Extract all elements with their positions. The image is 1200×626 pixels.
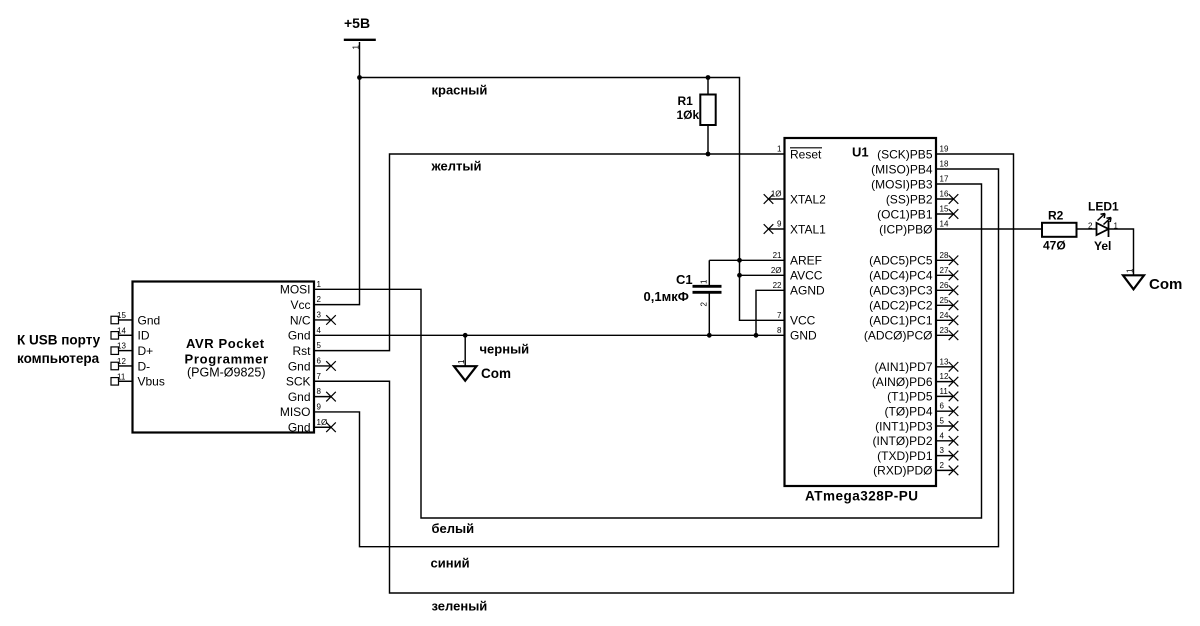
U1 pin 2 (RXD)PD0: [873, 461, 958, 478]
junction R1 bottom / yellow wire: [706, 152, 711, 157]
svg-text:13: 13: [940, 357, 949, 366]
svg-text:VCC: VCC: [790, 314, 816, 328]
ground symbol Com (right): [1123, 268, 1182, 293]
svg-text:1Ø: 1Ø: [771, 190, 782, 199]
programmer pin 1 MOSI: [280, 280, 322, 297]
svg-text:Gnd: Gnd: [288, 359, 311, 373]
U1 pin 14 (ICP)PB0: [879, 220, 949, 237]
wire PB0 (pin14) to R2: [936, 228, 1042, 230]
svg-text:15: 15: [117, 311, 126, 320]
svg-text:D-: D-: [138, 359, 151, 373]
ground symbol Com (left): [454, 335, 511, 381]
svg-text:4: 4: [317, 326, 322, 335]
svg-text:+5В: +5В: [344, 15, 370, 31]
svg-text:(OC1)PB1: (OC1)PB1: [877, 207, 933, 221]
svg-text:AVR Pocket: AVR Pocket: [186, 336, 265, 351]
svg-text:GND: GND: [790, 329, 817, 343]
svg-text:Yel: Yel: [1094, 239, 1111, 253]
svg-text:18: 18: [940, 160, 949, 169]
junction C1 bottom / GND wire: [707, 333, 712, 338]
svg-text:9: 9: [777, 220, 782, 229]
svg-text:1: 1: [777, 145, 782, 154]
U1 pin 10 XTAL2: [764, 190, 826, 207]
svg-text:желтый: желтый: [431, 159, 482, 174]
svg-text:8: 8: [317, 387, 322, 396]
programmer pin 3 N/C: [290, 310, 336, 327]
svg-text:26: 26: [940, 281, 949, 290]
U1 pin 16 (SS)PB2: [886, 190, 958, 207]
svg-text:D+: D+: [138, 344, 154, 358]
resistor R2 470: [1042, 209, 1077, 253]
svg-text:компьютера: компьютера: [17, 351, 100, 366]
svg-text:15: 15: [940, 205, 949, 214]
U1 pin 17 (MOSI)PB3: [871, 175, 949, 192]
svg-text:6: 6: [317, 356, 322, 365]
svg-text:17: 17: [940, 175, 949, 184]
svg-text:(AINØ)PD6: (AINØ)PD6: [872, 375, 933, 389]
svg-text:7: 7: [317, 372, 322, 381]
svg-text:0,1мкФ: 0,1мкФ: [644, 289, 689, 304]
svg-text:C1: C1: [676, 272, 693, 287]
U1 pin 26 (ADC3)PC3: [869, 281, 958, 298]
U1 pin 20 AVCC: [771, 266, 823, 283]
svg-text:4: 4: [940, 431, 945, 440]
wire R2 to LED1 anode: [1077, 228, 1097, 230]
svg-text:28: 28: [940, 251, 949, 260]
programmer pin 9 MISO: [280, 402, 322, 419]
svg-text:13: 13: [117, 342, 126, 351]
svg-text:черный: черный: [480, 342, 530, 357]
svg-text:Com: Com: [1149, 276, 1182, 293]
power +5V supply symbol: [344, 15, 376, 50]
svg-text:(ICP)PBØ: (ICP)PBØ: [879, 222, 932, 236]
svg-text:Vbus: Vbus: [138, 375, 165, 389]
resistor R1 10k: [677, 78, 716, 155]
svg-text:11: 11: [940, 387, 949, 396]
svg-text:синий: синий: [431, 556, 470, 571]
svg-text:1: 1: [457, 359, 466, 364]
programmer pin 7 SCK: [286, 372, 322, 389]
junction AREF / red vertical: [737, 258, 742, 263]
svg-text:Rst: Rst: [293, 344, 312, 358]
U1 pin 7 VCC: [777, 311, 816, 328]
svg-text:AVCC: AVCC: [790, 269, 823, 283]
svg-text:R2: R2: [1048, 209, 1064, 223]
wire AVCC (pin20) to red vertical: [740, 274, 785, 276]
svg-text:XTAL2: XTAL2: [790, 192, 826, 206]
svg-text:1: 1: [317, 280, 322, 289]
svg-text:12: 12: [117, 357, 126, 366]
programmer USB pin 13 D+: [111, 342, 153, 358]
svg-text:(PGM-Ø9825): (PGM-Ø9825): [187, 366, 266, 380]
svg-text:1Ø: 1Ø: [317, 418, 328, 427]
svg-text:(ADC2)PC2: (ADC2)PC2: [869, 299, 933, 313]
svg-text:(INT1)PD3: (INT1)PD3: [875, 419, 933, 433]
svg-text:1Øk: 1Øk: [677, 108, 700, 122]
svg-text:7: 7: [777, 311, 782, 320]
svg-text:8: 8: [777, 326, 782, 335]
programmer pin 5 Rst: [293, 341, 322, 358]
wire AGND (pin22) to GND wire: [756, 290, 785, 335]
svg-text:MOSI: MOSI: [280, 283, 311, 297]
junction AGND / GND wire: [754, 333, 759, 338]
programmer pin 6 Gnd: [288, 356, 336, 373]
svg-text:2: 2: [700, 302, 709, 307]
svg-text:6: 6: [940, 402, 945, 411]
svg-text:(ADC3)PC3: (ADC3)PC3: [869, 284, 933, 298]
programmer pin 2 Vcc: [290, 295, 321, 312]
svg-text:(TØ)PD4: (TØ)PD4: [885, 405, 933, 419]
AVR Pocket Programmer box: [133, 282, 315, 433]
svg-text:16: 16: [940, 190, 949, 199]
U1 pin 6 (T0)PD4: [885, 402, 959, 419]
wire black GND net (programmer Gnd pin4 to U1 GND pin8): [314, 334, 785, 336]
svg-text:(ADCØ)PCØ: (ADCØ)PCØ: [864, 329, 933, 343]
U1 pin 9 XTAL1: [764, 220, 826, 237]
svg-text:(TXD)PD1: (TXD)PD1: [877, 449, 933, 463]
U1 pin 28 (ADC5)PC5: [869, 251, 958, 268]
junction black wire / left ground: [463, 333, 468, 338]
U1 pin 15 (OC1)PB1: [877, 205, 958, 222]
svg-text:3: 3: [317, 310, 322, 319]
U1 pin 13 (AIN1)PD7: [874, 357, 958, 374]
svg-text:(RXD)PDØ: (RXD)PDØ: [873, 464, 932, 478]
svg-text:белый: белый: [432, 521, 475, 536]
svg-text:Gnd: Gnd: [288, 390, 311, 404]
svg-text:Gnd: Gnd: [138, 313, 161, 327]
LED LED1 Yel: [1088, 200, 1119, 254]
svg-text:XTAL1: XTAL1: [790, 222, 826, 236]
U1 pin 3 (TXD)PD1: [877, 446, 958, 463]
svg-text:N/C: N/C: [290, 313, 311, 327]
svg-text:12: 12: [940, 372, 949, 381]
svg-text:11: 11: [117, 372, 126, 381]
svg-text:(INTØ)PD2: (INTØ)PD2: [873, 434, 933, 448]
U1 pin 24 (ADC1)PC1: [869, 311, 958, 328]
U1 pin 4 (INT0)PD2: [873, 431, 959, 448]
svg-text:U1: U1: [852, 145, 869, 160]
svg-text:AGND: AGND: [790, 284, 825, 298]
svg-text:Gnd: Gnd: [288, 421, 311, 435]
wire red (+5V net to R1 top, AREF/AVCC/VCC): [360, 78, 785, 321]
U1 pin 1 Reset: [777, 145, 822, 162]
wire +5V supply to programmer Vcc pin 2: [314, 42, 360, 305]
svg-text:(MISO)PB4: (MISO)PB4: [871, 162, 933, 176]
svg-text:2: 2: [317, 295, 322, 304]
svg-text:14: 14: [117, 326, 126, 335]
U1 pin 22 AGND: [773, 281, 825, 298]
svg-text:5: 5: [940, 417, 945, 426]
programmer USB pin 14 ID: [111, 326, 150, 342]
svg-text:24: 24: [940, 311, 949, 320]
svg-text:2Ø: 2Ø: [771, 266, 782, 275]
svg-text:9: 9: [317, 402, 322, 411]
svg-text:(ADC1)PC1: (ADC1)PC1: [869, 314, 933, 328]
svg-text:(MOSI)PB3: (MOSI)PB3: [871, 177, 933, 191]
junction +5V / red wire: [357, 75, 362, 80]
U1 pin 8 GND: [777, 326, 817, 343]
wire LED1 cathode to right ground: [1109, 229, 1134, 275]
svg-text:2: 2: [940, 461, 945, 470]
svg-text:(ADC5)PC5: (ADC5)PC5: [869, 254, 933, 268]
wire AREF (pin21) to C1 top: [709, 259, 784, 261]
svg-text:25: 25: [940, 296, 949, 305]
svg-text:зеленый: зеленый: [432, 599, 488, 614]
junction red wire / R1 top: [706, 75, 711, 80]
svg-text:(ADC4)PC4: (ADC4)PC4: [869, 269, 933, 283]
svg-text:ID: ID: [138, 329, 150, 343]
svg-text:5: 5: [317, 341, 322, 350]
svg-text:ATmega328P-PU: ATmega328P-PU: [805, 489, 919, 504]
programmer USB pin 11 Vbus: [111, 372, 165, 388]
U1 pin 21 AREF: [773, 251, 822, 268]
wire white (programmer MOSI pin1 to U1 PB3 pin17): [314, 184, 982, 518]
svg-text:R1: R1: [678, 94, 694, 108]
U1 pin 25 (ADC2)PC2: [869, 296, 958, 313]
U1 pin 19 (SCK)PB5: [877, 145, 949, 162]
svg-text:Gnd: Gnd: [288, 329, 311, 343]
svg-text:22: 22: [773, 281, 782, 290]
U1 pin 27 (ADC4)PC4: [869, 266, 958, 283]
svg-text:47Ø: 47Ø: [1043, 239, 1066, 253]
svg-text:(T1)PD5: (T1)PD5: [887, 390, 933, 404]
programmer pin 10 Gnd: [288, 418, 336, 435]
programmer USB pin 12 D-: [111, 357, 150, 373]
svg-text:19: 19: [940, 145, 949, 154]
U1 pin 11 (T1)PD5: [887, 387, 958, 404]
svg-text:(SCK)PB5: (SCK)PB5: [877, 147, 933, 161]
wire blue (programmer MISO pin9 to U1 PB4 pin18): [314, 169, 999, 547]
capacitor C1 0,1uF: [644, 260, 722, 335]
svg-text:(SS)PB2: (SS)PB2: [886, 192, 933, 206]
svg-text:Programmer: Programmer: [185, 352, 269, 367]
svg-text:Com: Com: [481, 366, 511, 381]
U1 pin 18 (MISO)PB4: [871, 160, 949, 177]
svg-text:К USB порту: К USB порту: [17, 333, 101, 348]
svg-text:1: 1: [700, 279, 709, 284]
junction AVCC / red vertical: [737, 273, 742, 278]
IC U1 ATmega328P-PU box: [785, 138, 937, 504]
svg-text:2: 2: [1088, 222, 1093, 231]
svg-text:MISO: MISO: [280, 405, 311, 419]
programmer USB pin 15 Gnd: [111, 311, 160, 327]
wire green (programmer SCK pin7 to U1 PB5 pin19): [314, 154, 1014, 593]
svg-text:23: 23: [940, 326, 949, 335]
svg-text:(AIN1)PD7: (AIN1)PD7: [874, 360, 932, 374]
U1 pin 5 (INT1)PD3: [875, 417, 958, 434]
svg-text:27: 27: [940, 266, 949, 275]
svg-text:SCK: SCK: [286, 375, 311, 389]
programmer pin 8 Gnd: [288, 387, 336, 404]
svg-text:Reset: Reset: [790, 147, 822, 161]
svg-text:21: 21: [773, 251, 782, 260]
svg-text:LED1: LED1: [1088, 200, 1119, 214]
wire yellow (programmer Rst pin5 to U1 Reset pin1): [314, 154, 785, 351]
svg-text:Vcc: Vcc: [290, 298, 310, 312]
svg-text:3: 3: [940, 446, 945, 455]
svg-text:AREF: AREF: [790, 254, 822, 268]
svg-text:14: 14: [940, 220, 949, 229]
U1 pin 23 (ADC0)PC0: [864, 326, 958, 343]
programmer pin 4 Gnd: [288, 326, 322, 343]
U1 pin 12 (AIN0)PD6: [872, 372, 958, 389]
label К USB порту компьютера: [17, 333, 101, 367]
svg-text:красный: красный: [432, 83, 488, 98]
svg-text:1: 1: [1126, 268, 1135, 273]
